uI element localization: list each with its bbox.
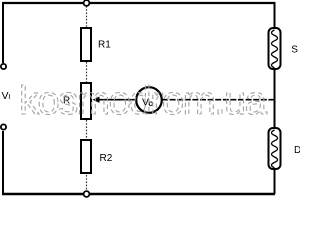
wire left lower stub: [2, 131, 4, 194]
wire wiper to voltmeter: [98, 99, 136, 101]
strain gauge D: [269, 128, 281, 169]
wire lead R1 to R: [86, 62, 88, 82]
svg-text:R2: R2: [100, 153, 113, 164]
wire top horizontal: [2, 2, 275, 4]
wire lead R to R2: [86, 120, 88, 139]
potentiometer R: [81, 83, 91, 119]
resistor R2: [81, 140, 91, 173]
terminal Vi bottom: [1, 124, 6, 129]
wire right lower (D to bottom): [274, 169, 276, 194]
svg-text:kosmodrom.ua: kosmodrom.ua: [19, 79, 268, 123]
wire right upper (top corner to S): [274, 2, 276, 28]
wire right middle (S to D): [274, 68, 276, 128]
svg-text:S: S: [291, 45, 298, 56]
wiper arrow of potentiometer: [93, 97, 100, 103]
node bottom junction: [84, 191, 90, 197]
voltmeter Vo: [136, 87, 162, 113]
strain gauge S: [269, 28, 281, 69]
wire left upper stub: [2, 2, 4, 63]
resistor R1: [81, 28, 91, 61]
terminal Vi top: [1, 64, 6, 69]
svg-text:R1: R1: [98, 40, 111, 51]
wire lead R2 to bottom node: [86, 175, 88, 191]
wire bottom horizontal: [2, 193, 275, 195]
wire voltmeter to right branch: [162, 99, 274, 101]
node top junction: [84, 0, 90, 6]
wire lead node to R1: [86, 6, 88, 27]
svg-text:I: I: [8, 92, 10, 101]
svg-text:D: D: [294, 145, 300, 156]
